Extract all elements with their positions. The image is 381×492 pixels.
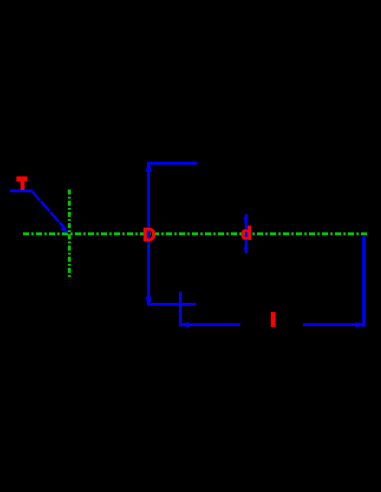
svg-text:d: d: [241, 223, 252, 243]
dimension D line: [146, 163, 151, 304]
arrow right: [355, 322, 363, 327]
dimension d line: [244, 214, 248, 253]
extension line right: [362, 236, 365, 326]
small arrow up: [244, 245, 248, 251]
bottom edge line: [147, 303, 196, 306]
arrow up: [146, 165, 151, 172]
dimension l line right segment: [303, 322, 364, 327]
leader line from T: [10, 191, 69, 234]
leader arrowhead: [60, 225, 69, 234]
horizontal centerline (axis): [23, 232, 368, 235]
small arrow down: [244, 217, 248, 224]
top edge line: [147, 162, 197, 165]
label I: [271, 312, 276, 327]
leader diagonal: [32, 191, 65, 228]
extension line left: [179, 291, 182, 326]
arrow down: [146, 297, 151, 305]
arrow left: [182, 322, 189, 327]
svg-text:D: D: [143, 225, 156, 245]
dimension l line left segment: [182, 322, 241, 327]
label T: [16, 176, 27, 190]
vertical centerline: [68, 190, 71, 278]
